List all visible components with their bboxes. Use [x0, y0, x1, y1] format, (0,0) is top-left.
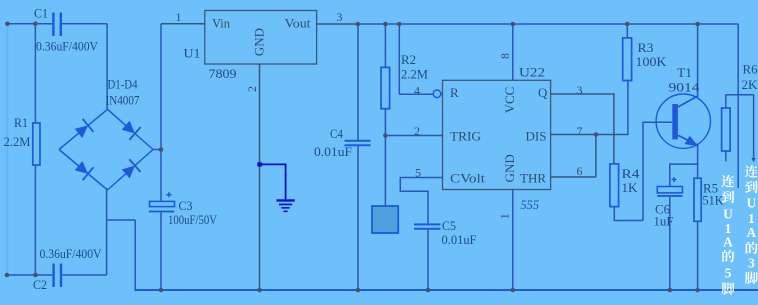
svg-text:R6: R6 [743, 62, 758, 77]
svg-text:Q: Q [538, 85, 548, 100]
svg-text:2.2M: 2.2M [4, 134, 31, 149]
svg-text:555: 555 [521, 197, 540, 212]
svg-text:C5: C5 [442, 218, 456, 233]
svg-text:R: R [450, 85, 459, 100]
svg-text:R4: R4 [622, 166, 641, 181]
svg-text:1: 1 [176, 10, 182, 24]
svg-text:VCC: VCC [502, 87, 517, 114]
svg-text:1: 1 [498, 213, 512, 219]
svg-text:Vout: Vout [285, 16, 311, 31]
svg-text:5: 5 [725, 265, 732, 280]
svg-text:R1: R1 [14, 115, 28, 130]
svg-text:TRIG: TRIG [450, 129, 481, 144]
svg-text:GND: GND [252, 28, 267, 56]
svg-text:R2: R2 [401, 52, 416, 67]
svg-text:1uF: 1uF [654, 214, 674, 229]
svg-text:DIS: DIS [526, 129, 547, 144]
svg-text:7: 7 [577, 124, 583, 138]
svg-text:CVolt: CVolt [450, 171, 485, 186]
svg-text:6: 6 [577, 164, 583, 178]
svg-text:A: A [723, 235, 733, 250]
svg-text:D1-D4: D1-D4 [108, 77, 138, 92]
svg-text:3: 3 [337, 10, 343, 24]
svg-text:3: 3 [577, 83, 583, 97]
svg-text:0.01uF: 0.01uF [314, 144, 352, 159]
svg-text:2.2M: 2.2M [401, 67, 428, 82]
svg-text:3: 3 [748, 256, 755, 271]
svg-text:U1: U1 [184, 46, 201, 61]
svg-text:51K: 51K [703, 193, 725, 208]
svg-text:U: U [747, 195, 757, 210]
svg-text:R3: R3 [638, 40, 654, 55]
svg-text:5: 5 [415, 166, 421, 180]
svg-text:100uF/50V: 100uF/50V [168, 212, 218, 227]
svg-text:2: 2 [414, 124, 420, 138]
svg-text:0.36uF/400V: 0.36uF/400V [36, 39, 99, 54]
svg-text:THR: THR [520, 171, 546, 186]
svg-text:Vin: Vin [212, 16, 230, 31]
svg-text:2: 2 [245, 86, 259, 92]
svg-text:1K: 1K [622, 180, 639, 195]
svg-text:9014: 9014 [669, 80, 701, 95]
svg-text:0.01uF: 0.01uF [442, 232, 477, 247]
svg-text:C2: C2 [33, 277, 47, 292]
svg-text:GND: GND [502, 154, 517, 182]
svg-text:U: U [723, 206, 733, 221]
svg-text:0.36uF/400V: 0.36uF/400V [40, 246, 103, 261]
svg-text:4: 4 [414, 84, 420, 98]
svg-text:7809: 7809 [209, 66, 237, 81]
svg-text:IN4007: IN4007 [106, 93, 140, 108]
svg-text:C1: C1 [34, 6, 48, 21]
svg-text:100K: 100K [636, 54, 668, 69]
svg-text:C3: C3 [179, 198, 193, 213]
svg-text:2K: 2K [742, 77, 758, 92]
svg-text:C4: C4 [330, 126, 343, 141]
svg-text:8: 8 [498, 53, 512, 59]
svg-text:T1: T1 [677, 65, 692, 80]
svg-text:A: A [747, 225, 757, 240]
svg-text:1: 1 [748, 211, 755, 226]
svg-text:U22: U22 [519, 65, 545, 80]
